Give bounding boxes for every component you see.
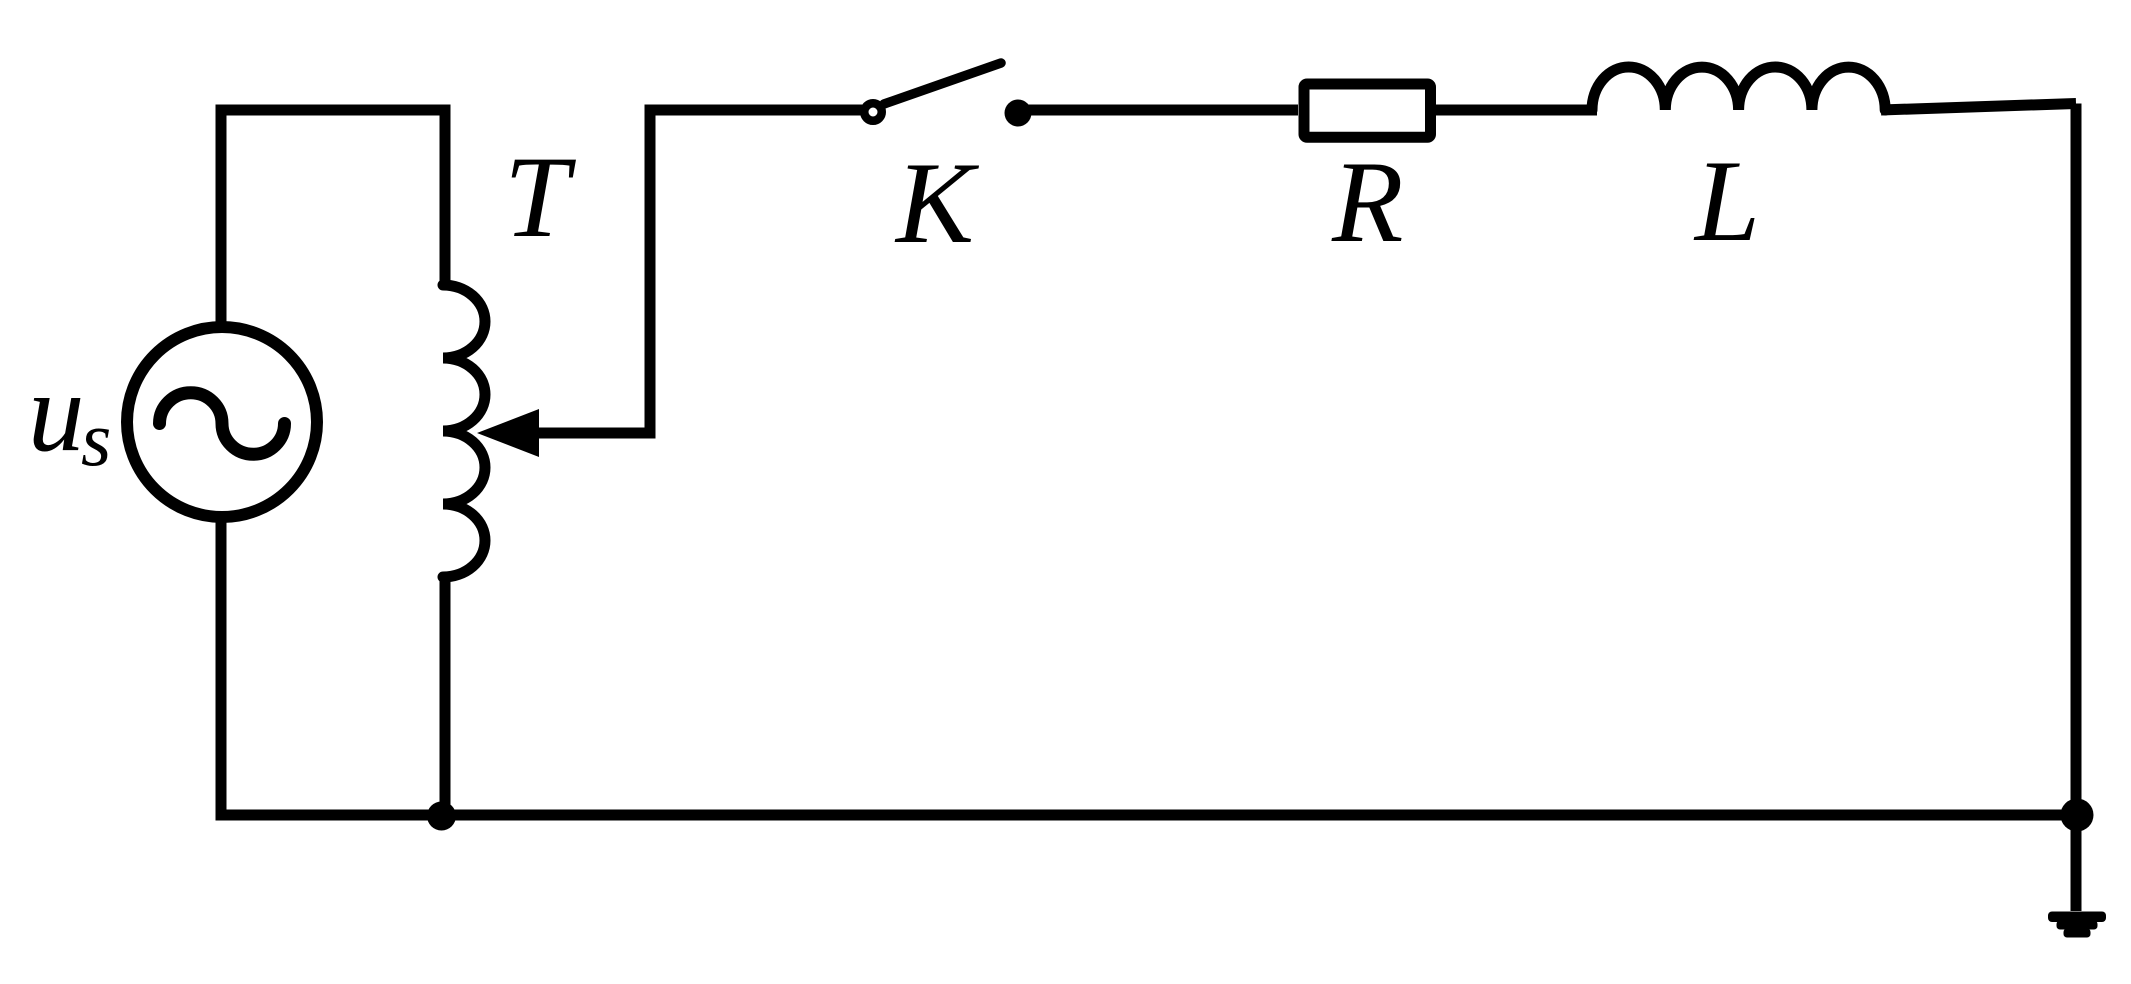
wire switch to resistor: [1018, 105, 1298, 116]
wire top-left loop: [221, 110, 445, 327]
svg-text:T: T: [504, 133, 576, 262]
svg-text:u: u: [28, 350, 85, 475]
svg-text:s: s: [81, 395, 111, 482]
switch K blade: [884, 63, 1001, 104]
wire bottom: [216, 810, 2083, 821]
source sine symbol: [160, 393, 285, 455]
switch K pivot terminal: [864, 103, 882, 121]
junction dot right: [2061, 799, 2094, 832]
transformer T winding: [443, 285, 485, 577]
ground bar 2: [2057, 921, 2098, 930]
tap arrowhead: [477, 409, 539, 457]
wire coil bottom: [440, 575, 451, 815]
wire inductor to right corner: [1881, 104, 2076, 111]
svg-text:L: L: [1693, 137, 1760, 266]
junction dot left: [427, 802, 456, 831]
ground bar 3: [2064, 929, 2091, 938]
wire tap branch: [539, 110, 862, 433]
resistor R body: [1304, 84, 1431, 137]
wire right side down to ground: [2071, 104, 2082, 912]
wire resistor to inductor: [1436, 105, 1597, 116]
svg-text:R: R: [1331, 138, 1403, 267]
switch K contact dot: [1005, 100, 1032, 127]
wire source bottom: [216, 515, 227, 815]
ground bar 1: [2048, 912, 2106, 923]
inductor L winding: [1592, 67, 1885, 110]
source u_s circle: [127, 327, 317, 517]
svg-text:K: K: [894, 139, 980, 268]
